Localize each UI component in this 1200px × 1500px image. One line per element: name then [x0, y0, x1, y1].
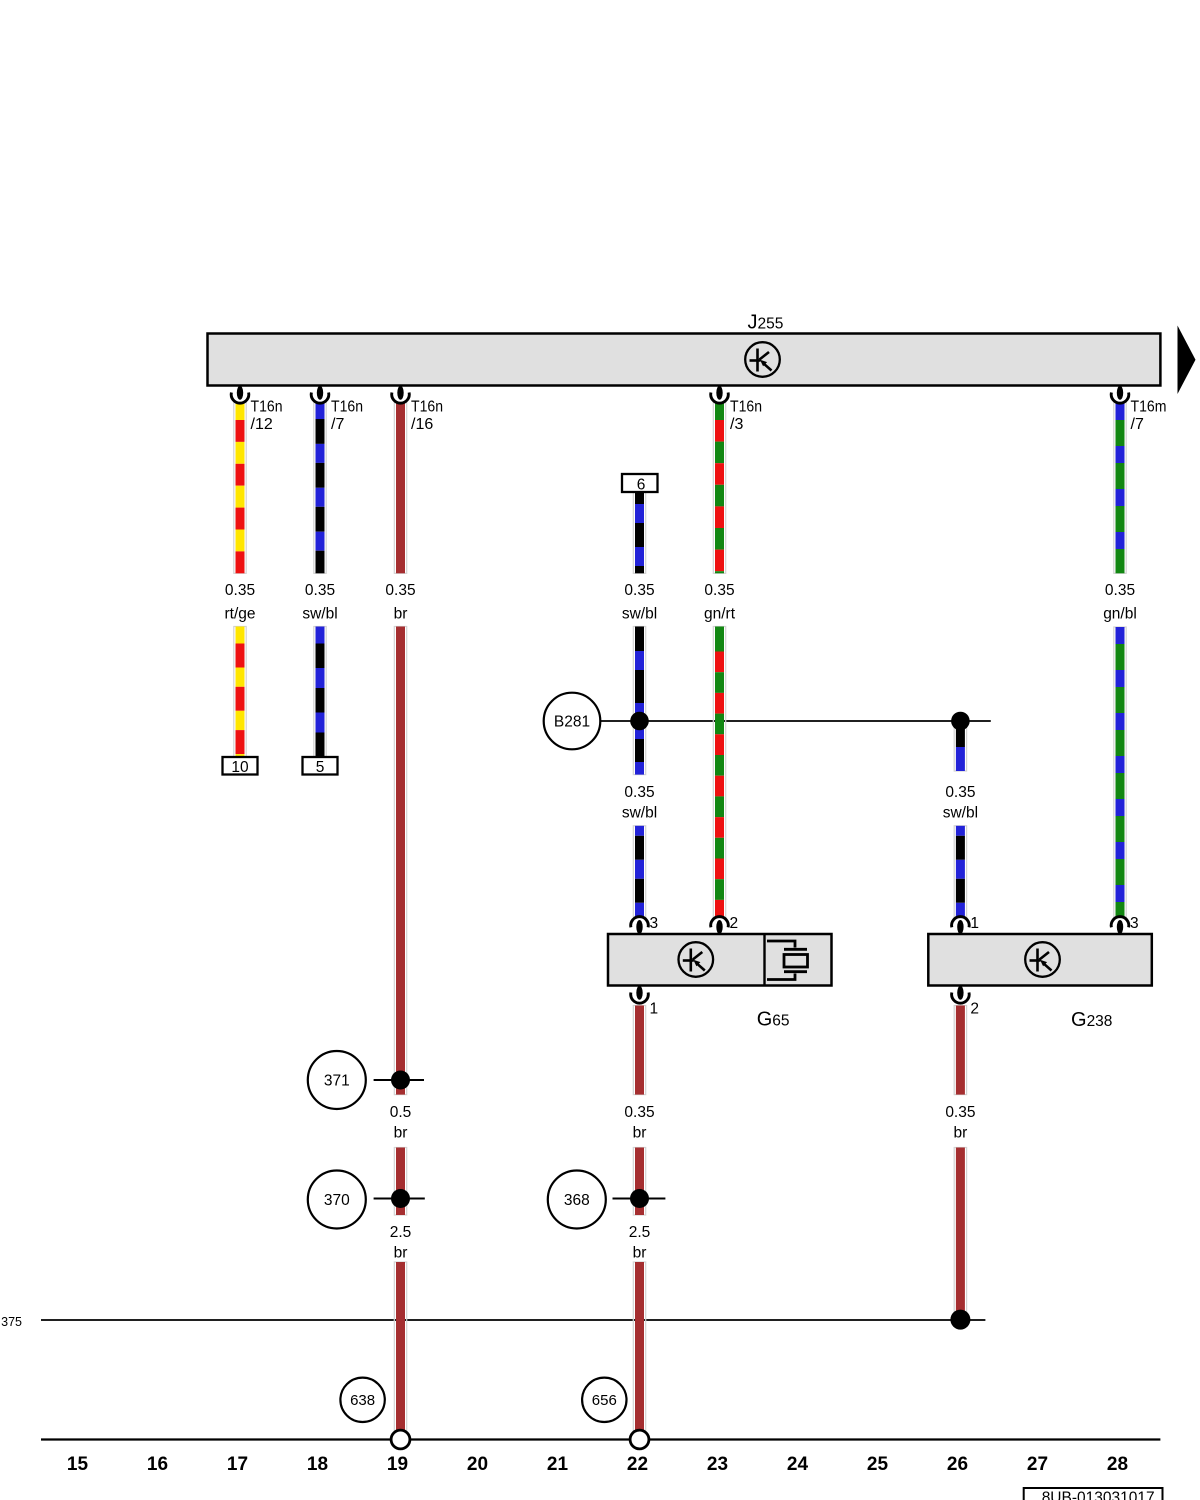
svg-text:2.5: 2.5	[390, 1224, 412, 1241]
svg-text:3: 3	[1130, 915, 1139, 932]
svg-text:23: 23	[707, 1454, 728, 1475]
svg-text:br: br	[633, 1125, 647, 1142]
svg-text:gn/bl: gn/bl	[1103, 606, 1137, 623]
G65 pin 2	[716, 920, 722, 934]
svg-text:20: 20	[467, 1454, 488, 1475]
wire br G238 pin2 segment 2	[954, 1148, 966, 1320]
control unit J255 box	[208, 334, 1161, 386]
svg-text:B281: B281	[554, 714, 590, 731]
wire gn/bl T16m/7 upper segment	[1114, 402, 1126, 573]
svg-text:16: 16	[147, 1454, 168, 1475]
wire sw/bl T16n/7 lower segment	[314, 627, 326, 758]
svg-text:br: br	[394, 606, 408, 623]
svg-text:J255: J255	[748, 312, 784, 334]
J255 sensor icon	[745, 342, 780, 377]
svg-text:/3: /3	[730, 416, 743, 433]
svg-text:br: br	[394, 1125, 408, 1142]
continuation arrow	[1178, 326, 1196, 395]
svg-text:0.5: 0.5	[390, 1104, 412, 1121]
G238 pin 2	[957, 986, 963, 1000]
junction dot wire sw/bl at B281 line	[630, 712, 649, 731]
svg-text:26: 26	[947, 1454, 968, 1475]
node 370	[308, 1171, 366, 1229]
svg-text:0.35: 0.35	[624, 582, 654, 599]
svg-text:br: br	[633, 1245, 647, 1262]
wire 375 ground distribution line	[41, 1319, 985, 1321]
svg-text:19: 19	[387, 1454, 408, 1475]
G65 sensor icon	[679, 942, 714, 977]
svg-text:0.35: 0.35	[704, 582, 734, 599]
wire sw/bl T16n/7 upper segment	[314, 402, 326, 573]
wire sw/bl into G65 pin3	[633, 826, 645, 917]
wire rt/ge lower segment	[234, 627, 246, 758]
svg-text:656: 656	[592, 1392, 617, 1409]
J255 pin T16m/7	[1117, 386, 1123, 400]
svg-text:0.35: 0.35	[624, 1104, 654, 1121]
svg-text:3: 3	[650, 915, 659, 932]
svg-text:T16n: T16n	[411, 399, 443, 416]
svg-text:8UB-013031017: 8UB-013031017	[1042, 1490, 1155, 1500]
svg-text:18: 18	[307, 1454, 328, 1475]
svg-text:T16m: T16m	[1131, 399, 1167, 416]
svg-text:17: 17	[227, 1454, 248, 1475]
svg-text:25: 25	[867, 1454, 889, 1475]
wire sw/bl B281 to G238 segment 2	[954, 826, 966, 917]
svg-text:T16n: T16n	[251, 399, 283, 416]
svg-text:/16: /16	[411, 416, 433, 433]
svg-text:371: 371	[324, 1073, 350, 1090]
wire br T16n/16 segment 3	[394, 1148, 406, 1216]
svg-text:T16n: T16n	[730, 399, 762, 416]
svg-text:0.35: 0.35	[945, 784, 975, 801]
svg-text:0.35: 0.35	[305, 582, 335, 599]
sensor G65 box	[608, 934, 832, 986]
sensor G238 box	[928, 934, 1152, 986]
wire rt/ge upper segment	[234, 402, 246, 573]
svg-text:T16n: T16n	[331, 399, 363, 416]
svg-text:sw/bl: sw/bl	[622, 606, 657, 623]
svg-text:24: 24	[787, 1454, 809, 1475]
svg-text:21: 21	[547, 1454, 569, 1475]
node 638	[340, 1378, 384, 1422]
svg-text:28: 28	[1107, 1454, 1128, 1475]
svg-text:368: 368	[564, 1192, 590, 1209]
svg-text:375: 375	[1, 1315, 22, 1329]
wire sw/bl from terminal 6 segment 1	[633, 492, 645, 573]
svg-text:370: 370	[324, 1192, 350, 1209]
ground point 22	[630, 1430, 649, 1449]
svg-text:27: 27	[1027, 1454, 1048, 1475]
node 656	[582, 1378, 626, 1422]
svg-text:/7: /7	[1131, 416, 1144, 433]
svg-text:1: 1	[970, 915, 979, 932]
svg-text:10: 10	[231, 759, 249, 776]
G65 pin 3	[636, 920, 642, 934]
svg-text:0.35: 0.35	[385, 582, 415, 599]
svg-text:/12: /12	[251, 416, 273, 433]
J255 pin T16n/3	[716, 386, 722, 400]
G65 plug icon	[767, 941, 808, 980]
svg-text:rt/ge: rt/ge	[224, 606, 255, 623]
svg-text:sw/bl: sw/bl	[302, 606, 337, 623]
wire gn/rt T16n/3 lower segment	[713, 627, 725, 917]
svg-text:15: 15	[67, 1454, 89, 1475]
J255 pin T16n/12	[237, 386, 243, 400]
svg-text:0.35: 0.35	[225, 582, 255, 599]
wire br T16n/16 segment 2	[394, 627, 406, 1095]
J255 pin T16n/16	[397, 386, 403, 400]
G238 sensor icon	[1025, 942, 1060, 977]
G238 pin 1	[957, 920, 963, 934]
wire br T16n/16 segment 4	[394, 1262, 406, 1431]
svg-text:sw/bl: sw/bl	[622, 804, 657, 821]
J255 pin T16n/7	[317, 386, 323, 400]
wire sw/bl B281 to G238 segment 1	[954, 721, 966, 771]
current track ruler line	[41, 1438, 1160, 1440]
svg-text:G65: G65	[757, 1008, 790, 1030]
junction dot right at B281 line	[951, 712, 970, 731]
svg-text:0.35: 0.35	[945, 1104, 975, 1121]
svg-text:/7: /7	[331, 416, 344, 433]
wire gn/bl T16m/7 lower segment	[1114, 627, 1126, 917]
wire sw/bl from terminal 6 segment 2	[633, 627, 645, 775]
ground point 19	[391, 1430, 410, 1449]
svg-text:br: br	[394, 1245, 408, 1262]
wire br G238 pin2 segment 1	[954, 1006, 966, 1095]
junction dot on line 375	[950, 1310, 970, 1330]
svg-text:0.35: 0.35	[1105, 582, 1135, 599]
wire br G65 pin1 segment 1	[633, 1006, 645, 1095]
node 371	[308, 1051, 366, 1109]
svg-text:br: br	[954, 1125, 968, 1142]
svg-text:2: 2	[970, 1001, 979, 1018]
node 368	[548, 1171, 606, 1229]
svg-text:5: 5	[316, 759, 325, 776]
terminal box 10	[223, 757, 258, 775]
G65 divider	[763, 934, 765, 986]
wire br G65 pin1 segment 3	[633, 1262, 645, 1431]
svg-text:638: 638	[350, 1392, 375, 1409]
svg-text:6: 6	[637, 477, 646, 494]
svg-text:22: 22	[627, 1454, 648, 1475]
terminal box 6	[622, 474, 658, 492]
G65 pin 1	[636, 986, 642, 1000]
node B281	[544, 693, 601, 750]
wire gn/rt T16n/3 upper segment	[713, 402, 725, 573]
G238 pin 3	[1117, 920, 1123, 934]
svg-text:sw/bl: sw/bl	[943, 804, 978, 821]
wire br G65 pin1 segment 2	[633, 1148, 645, 1216]
svg-text:2.5: 2.5	[629, 1224, 651, 1241]
wire br T16n/16 segment 1	[394, 402, 406, 573]
diagram code box	[1024, 1488, 1163, 1500]
svg-text:G238: G238	[1071, 1009, 1112, 1031]
svg-text:1: 1	[650, 1001, 659, 1018]
svg-text:gn/rt: gn/rt	[704, 606, 736, 623]
terminal box 5	[303, 757, 338, 775]
svg-text:0.35: 0.35	[624, 784, 654, 801]
svg-text:2: 2	[730, 915, 739, 932]
horizontal link line from B281	[600, 720, 991, 722]
